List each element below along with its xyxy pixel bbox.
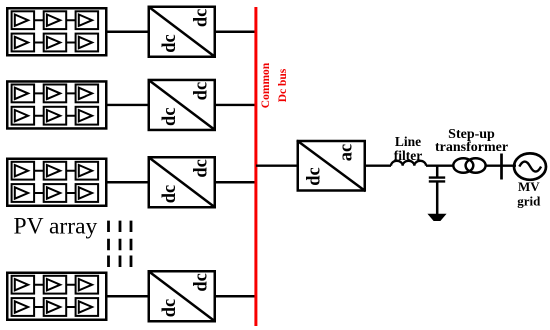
- svg-text:grid: grid: [517, 193, 541, 208]
- dc/ac inverter: [297, 141, 365, 192]
- PV array 1: [7, 8, 106, 55]
- PV array 3: [7, 159, 106, 206]
- svg-text:ac: ac: [337, 144, 357, 161]
- capacitor C plates: [429, 176, 445, 178]
- common dc bus (red): [254, 7, 257, 326]
- MV grid source: [514, 153, 546, 179]
- capacitor branch wire: [436, 166, 439, 177]
- svg-text:MV: MV: [518, 179, 540, 194]
- wire converter 1 to dc bus: [215, 31, 256, 33]
- wire inverter to line filter: [366, 164, 391, 166]
- step-up transformer T1: [453, 158, 473, 173]
- dc/dc converter 1: [149, 7, 215, 57]
- wire PV3 to converter 3: [106, 181, 148, 183]
- svg-text:Common: Common: [260, 62, 272, 108]
- inductor L (line filter): [391, 161, 426, 166]
- svg-text:dc: dc: [305, 167, 325, 186]
- wire PV1 to converter 1: [106, 31, 148, 33]
- dc/dc converter 2: [149, 80, 215, 130]
- svg-text:PV array: PV array: [14, 214, 98, 240]
- wire inductor to transformer: [426, 164, 454, 166]
- dc/dc converter 3: [149, 157, 215, 207]
- sine wave inside grid source: [519, 162, 541, 172]
- wire transformer to grid: [486, 164, 517, 166]
- wire converter 3 to dc bus: [215, 181, 256, 183]
- PV array 2: [7, 81, 106, 128]
- wire PV2 to converter 2: [106, 104, 148, 106]
- ground: [428, 214, 445, 220]
- dc/dc converter 4: [149, 271, 215, 321]
- breaker tick: [500, 154, 503, 180]
- wire dc bus to inverter: [256, 164, 297, 166]
- svg-text:transformer: transformer: [435, 140, 508, 155]
- PV array 4: [7, 273, 106, 320]
- svg-text:Line: Line: [395, 134, 421, 149]
- wire converter 4 to dc bus: [215, 295, 256, 297]
- wire converter 2 to dc bus: [215, 104, 256, 106]
- wire PV4 to converter 4: [106, 295, 148, 297]
- svg-text:Dc bus: Dc bus: [277, 68, 289, 102]
- ellipsis dashed continuation lines: [107, 221, 110, 267]
- capacitor to ground wire: [436, 183, 439, 216]
